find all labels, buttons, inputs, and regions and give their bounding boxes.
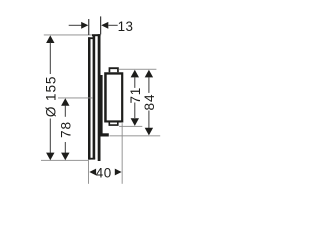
svg-text:Ø 155: Ø 155 [43, 76, 58, 118]
plate top rim [92, 34, 101, 36]
svg-text:84: 84 [142, 94, 157, 111]
dim 13 tick right [100, 16, 101, 34]
plate top flange connector [88, 37, 95, 39]
dim 71 line [131, 70, 139, 126]
sleeve bottom bar [101, 133, 109, 136]
handle body outline [104, 72, 123, 122]
extension line plate top left [44, 34, 92, 37]
dim 40 arrow left [89, 169, 96, 176]
sleeve vertical bar [101, 75, 103, 137]
dim 13 arrow right [101, 22, 118, 29]
extension line sleeve bottom 84 [110, 134, 161, 137]
handle cap [109, 67, 119, 72]
dim 84 line [145, 70, 153, 136]
plate front bar [98, 34, 101, 161]
extension line foot bottom 71 [119, 125, 142, 128]
dim 13 tick left [88, 19, 89, 35]
extension line valve center 78 [58, 97, 93, 100]
extension line cap top right [119, 68, 157, 71]
svg-text:13: 13 [118, 19, 134, 34]
svg-text:71: 71 [128, 87, 143, 104]
svg-text:40: 40 [96, 165, 112, 180]
dim 78 line [61, 98, 69, 160]
plate bottom connector [88, 158, 95, 160]
extension line 40 right vertical [121, 123, 124, 184]
dim 155 line [46, 35, 54, 160]
svg-text:78: 78 [58, 121, 73, 138]
extension line 40 left vertical [87, 160, 90, 184]
dim 40 arrow right [115, 169, 122, 176]
handle foot [109, 123, 119, 126]
plate middle bar [93, 36, 96, 159]
dim 13 arrow left [69, 22, 89, 29]
plate back bar [88, 37, 91, 159]
extension line plate bottom left [41, 159, 89, 162]
